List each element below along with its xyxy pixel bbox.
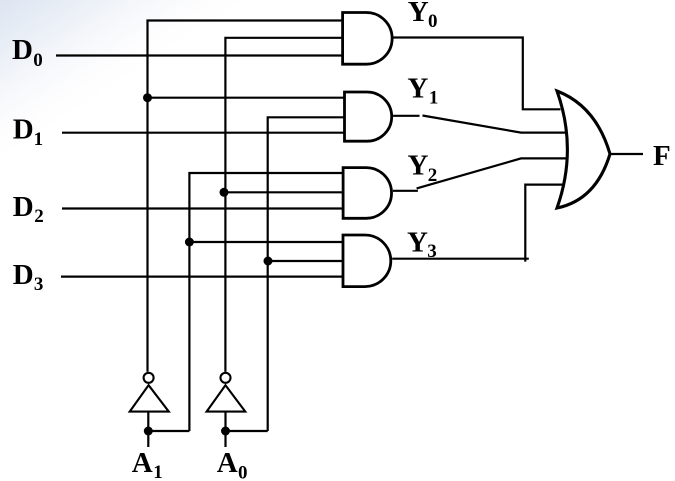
svg-text:3: 3 (34, 274, 44, 295)
svg-text:D: D (13, 191, 34, 223)
svg-text:Y: Y (408, 150, 429, 182)
AND gate Y1 (345, 92, 392, 141)
svg-text:D: D (13, 114, 34, 146)
svg-text:2: 2 (34, 206, 44, 227)
wire D3 line (61, 276, 343, 278)
wire D1 line (62, 132, 345, 134)
svg-text:0: 0 (428, 11, 438, 32)
junction dot A0 to Y3 (264, 257, 273, 266)
AND gate Y2 (343, 168, 391, 219)
junction dot A0 input (221, 427, 230, 436)
wire A0 branch to Y3 input2 (268, 260, 343, 262)
wire D0 line (56, 54, 343, 56)
svg-text:F: F (653, 140, 671, 172)
junction dot A0' to Y2 (220, 188, 229, 197)
svg-text:3: 3 (427, 241, 437, 262)
wire F output (610, 153, 643, 155)
inverter for A0 (bubble and triangle) (221, 373, 231, 383)
junction dot A1 input (144, 427, 153, 436)
wire Y3 vertical riser to OR gate (525, 185, 563, 262)
svg-text:1: 1 (34, 129, 44, 150)
inverter for A1 (bubble and triangle) (144, 373, 154, 383)
junction dot A1' to Y1 (143, 93, 152, 102)
wire Y1 output to OR gate (393, 115, 419, 117)
wire A1' branch to Y1 input1 (148, 97, 345, 99)
svg-text:D: D (13, 259, 34, 291)
svg-text:A: A (132, 447, 153, 479)
svg-text:D: D (12, 34, 33, 66)
svg-text:Y: Y (408, 0, 429, 28)
wire Y0 output to OR gate (394, 38, 561, 110)
wire A0' branch to Y2 input2 (224, 191, 343, 193)
svg-text:0: 0 (238, 462, 248, 481)
junction dot A1 to Y3 (185, 238, 194, 247)
wire D2 line (62, 207, 343, 209)
svg-text:Y: Y (407, 227, 428, 259)
wire A1 input stub below inverter (147, 412, 149, 447)
wire A1' vertical with top wire to Y0 input1 (148, 21, 344, 372)
svg-text:Y: Y (407, 73, 428, 105)
svg-text:2: 2 (428, 165, 438, 186)
AND gate Y3 (343, 235, 391, 287)
wire A1 vertical to Y2 input1 (189, 173, 343, 431)
AND gate Y0 (343, 13, 393, 65)
wire Y3 output horizontal (392, 258, 529, 260)
svg-text:1: 1 (429, 87, 439, 108)
wire A1 branch to Y3 input1 (189, 241, 343, 243)
svg-text:0: 0 (33, 50, 43, 71)
OR gate (557, 91, 610, 208)
svg-text:A: A (217, 447, 238, 479)
wire A0 input stub below inverter (224, 412, 226, 447)
wire A0 branch to vertical (226, 430, 268, 432)
wire A1 branch to vertical (148, 430, 189, 432)
wire Y2 output to OR gate (393, 190, 418, 192)
svg-text:1: 1 (153, 462, 163, 481)
wire A0' vertical with top wire to Y0 input2 (225, 38, 342, 372)
wire A0 vertical to Y1 input2 (268, 117, 345, 431)
